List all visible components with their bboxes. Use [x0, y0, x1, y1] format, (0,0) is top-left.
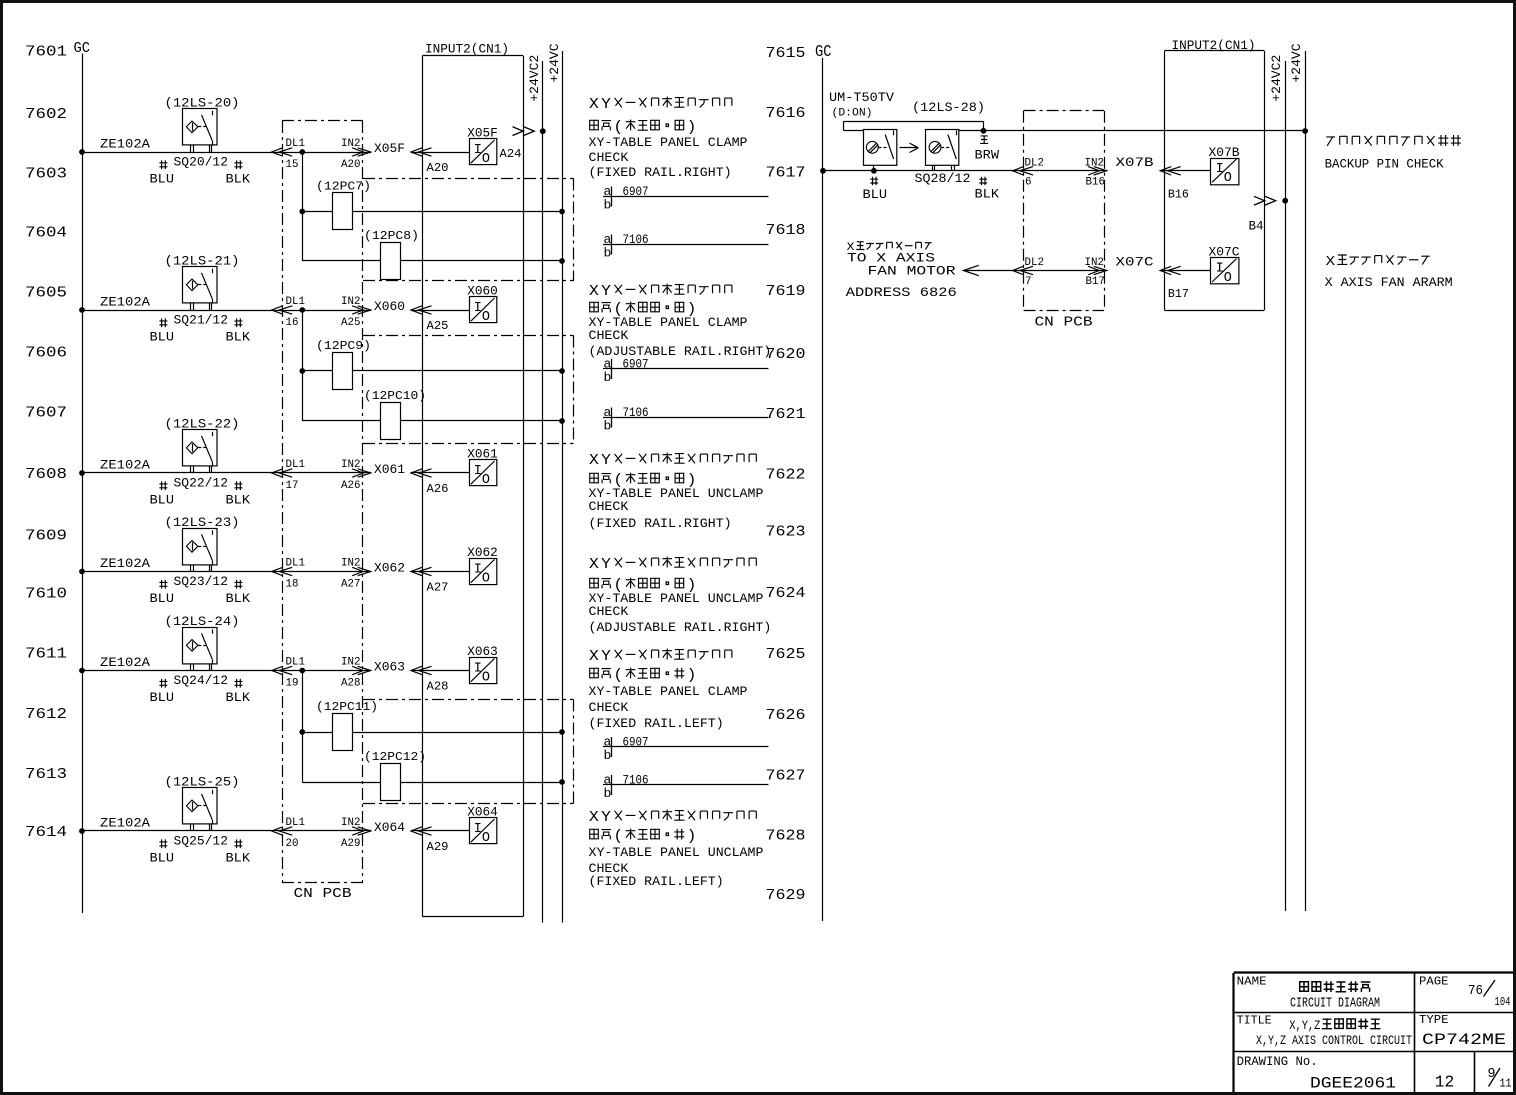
svg-text:7623: 7623: [766, 524, 806, 541]
connector IN2 pin A25: [341, 296, 371, 329]
svg-text:PAGE: PAGE: [1419, 975, 1449, 989]
function description text block: [589, 453, 764, 531]
actuation arrow between switches: [900, 143, 919, 152]
svg-text:O: O: [1224, 271, 1232, 286]
title block DRAWING cell: [1237, 1055, 1396, 1093]
wire BRW node to +24VC bus: [981, 128, 1308, 134]
svg-text:7616: 7616: [766, 105, 806, 122]
wire X060 to I/O with direction arrow: [411, 306, 470, 314]
limit switch SQ20/12 (12LS-20): [165, 96, 240, 153]
svg-text:CP742ME: CP742ME: [1422, 1031, 1506, 1049]
svg-text:(FIXED RAIL.RIGHT): (FIXED RAIL.RIGHT): [589, 165, 732, 180]
svg-text:A27: A27: [427, 581, 449, 595]
line numbers 7615-7629: [766, 45, 806, 904]
svg-text:+24VC2: +24VC2: [1269, 55, 1284, 102]
limit switch SQ21/12 (12LS-21): [165, 254, 240, 311]
svg-text:X AXIS FAN ARARM: X AXIS FAN ARARM: [1325, 275, 1453, 290]
svg-text:X: X: [589, 810, 599, 826]
connector DL1 pin 15: [272, 138, 305, 171]
svg-text:SQ28/12: SQ28/12: [915, 171, 971, 186]
svg-text:): ): [687, 120, 697, 136]
+24VC bus (right): [1289, 43, 1306, 911]
svg-text:BLK: BLK: [226, 493, 251, 508]
wire color labels BLU/BLK: [150, 155, 251, 187]
I/O module X064 pin A29: [467, 806, 498, 847]
svg-text:O: O: [482, 473, 490, 488]
wire ZE102A row (y=310): [79, 295, 371, 313]
wire color labels BLU/BLK: [150, 313, 251, 345]
svg-text:XY-TABLE PANEL UNCLAMP: XY-TABLE PANEL UNCLAMP: [589, 845, 764, 860]
svg-text:I: I: [474, 661, 482, 676]
svg-text:ZE102A: ZE102A: [100, 137, 150, 152]
svg-text:I: I: [474, 301, 482, 316]
connector DL1 pin 18: [272, 558, 305, 591]
terminal a/b address 7106: [603, 232, 768, 261]
svg-text:X: X: [589, 557, 599, 573]
svg-text:A28: A28: [427, 680, 449, 694]
connector DL1 pin 17: [272, 459, 305, 492]
connector DL1 pin 20: [272, 817, 305, 850]
svg-text:20: 20: [286, 838, 299, 850]
wire colors BLU for UM-T50TV: [863, 177, 888, 202]
function description text block: [589, 284, 772, 359]
connector DL2 pin 6: [1013, 157, 1044, 188]
svg-text:TYPE: TYPE: [1419, 1013, 1449, 1027]
svg-text:SQ22/12: SQ22/12: [174, 476, 229, 491]
photocoupler (12PC12): [302, 750, 565, 801]
svg-text:7106: 7106: [623, 233, 649, 247]
svg-text:BLU: BLU: [150, 172, 175, 187]
wire color labels BLU/BLK: [150, 834, 251, 866]
fan motor destination text: [846, 242, 957, 300]
photocoupler (12PC7): [302, 179, 565, 229]
svg-text:A20: A20: [427, 161, 449, 175]
svg-text:CN PCB: CN PCB: [294, 887, 352, 902]
svg-text:BLU: BLU: [863, 187, 888, 202]
wire ZE102A row (y=473): [79, 458, 371, 476]
I/O module X07B pin B16: [1209, 146, 1241, 186]
svg-text:BRW: BRW: [975, 147, 1000, 162]
svg-text:Y: Y: [601, 557, 611, 573]
svg-text:7625: 7625: [766, 646, 806, 663]
svg-text:IN2: IN2: [341, 296, 360, 308]
svg-text:DGEE2061: DGEE2061: [1310, 1075, 1396, 1093]
svg-text:I: I: [474, 562, 482, 577]
limit switch SQ24/12 (12LS-24): [165, 614, 240, 671]
wire X05F to I/O with direction arrow: [411, 148, 470, 156]
svg-text:ZE102A: ZE102A: [100, 458, 150, 473]
svg-text:7626: 7626: [766, 707, 806, 724]
svg-text:19: 19: [286, 678, 299, 690]
svg-text:7629: 7629: [766, 887, 806, 904]
svg-text:b: b: [604, 198, 612, 213]
svg-text:16: 16: [286, 317, 299, 329]
svg-text:ZE102A: ZE102A: [100, 556, 150, 571]
wire ZE102A row (y=152): [79, 137, 371, 155]
svg-text:7615: 7615: [766, 45, 806, 62]
svg-text:): ): [687, 668, 697, 684]
svg-text:7106: 7106: [623, 406, 649, 420]
photocoupler (12PC10): [302, 389, 565, 440]
svg-text:(12PC9): (12PC9): [316, 339, 371, 353]
svg-text:(12LS-28): (12LS-28): [912, 100, 985, 115]
limit switch SQ23/12 (12LS-23): [165, 515, 240, 572]
svg-text:7624: 7624: [766, 585, 806, 602]
svg-text:O: O: [1224, 171, 1232, 186]
tap wire from DL1 node row1 down to 12PC7/12PC8: [299, 152, 305, 261]
+24VC2 bus (right): [1269, 55, 1286, 911]
svg-text:b: b: [604, 786, 612, 801]
svg-text:BLK: BLK: [226, 851, 251, 866]
svg-text:7604: 7604: [25, 225, 67, 242]
svg-text:76: 76: [1468, 984, 1483, 999]
svg-text:): ): [687, 829, 697, 845]
connector DL1 pin 19: [272, 657, 305, 690]
svg-text:7614: 7614: [25, 824, 67, 841]
svg-text:DRAWING No.: DRAWING No.: [1237, 1055, 1318, 1069]
svg-text:17: 17: [286, 480, 299, 492]
svg-text:BLU: BLU: [150, 851, 175, 866]
svg-text:X07B: X07B: [1116, 156, 1155, 170]
I/O module X061 pin A26: [467, 448, 498, 489]
svg-text:Y: Y: [601, 649, 611, 665]
svg-text:7601: 7601: [25, 44, 67, 61]
svg-text:A26: A26: [341, 480, 360, 492]
svg-text:9: 9: [1488, 1067, 1496, 1082]
svg-text:SQ25/12: SQ25/12: [174, 834, 229, 849]
svg-text:X,Y,Z AXIS CONTROL CIRCUIT: X,Y,Z AXIS CONTROL CIRCUIT: [1256, 1033, 1412, 1048]
svg-text:ZE102A: ZE102A: [100, 655, 150, 670]
terminal a/b address 6907: [603, 184, 768, 213]
connector IN2 pin B16: [1085, 157, 1107, 188]
svg-text:I: I: [474, 143, 482, 158]
svg-text:IN2: IN2: [1085, 257, 1104, 269]
cable screen boundary A25 block (dash-dot): [363, 336, 574, 444]
svg-text:SQ24/12: SQ24/12: [174, 673, 229, 688]
svg-text:(: (: [613, 829, 623, 845]
svg-text:GC: GC: [74, 40, 91, 57]
svg-text:(FIXED RAIL.LEFT): (FIXED RAIL.LEFT): [589, 874, 724, 889]
I/O module X062 pin A27: [467, 546, 498, 587]
function description text block: [589, 810, 764, 889]
wire X061 to I/O with direction arrow: [411, 469, 470, 477]
photocoupler (12PC8): [302, 229, 565, 280]
svg-text:7613: 7613: [25, 766, 67, 783]
wire X07B to I/O with direction arrow: [1160, 167, 1210, 175]
+24VC2 feed arrow at X05F: [513, 127, 546, 136]
svg-text:A27: A27: [341, 579, 360, 591]
svg-text:b: b: [604, 748, 612, 763]
svg-text:O: O: [482, 572, 490, 587]
svg-text:IN2: IN2: [341, 657, 360, 669]
svg-text:BLK: BLK: [226, 330, 251, 345]
svg-text:BLU: BLU: [150, 330, 175, 345]
wire X063 to I/O with direction arrow: [411, 666, 470, 674]
svg-text:18: 18: [286, 579, 299, 591]
svg-text:I: I: [474, 464, 482, 479]
svg-text:7611: 7611: [25, 646, 67, 663]
svg-text:11: 11: [1500, 1078, 1512, 1091]
svg-text:X: X: [589, 284, 599, 300]
svg-text:X062: X062: [374, 562, 405, 576]
svg-text:(FIXED RAIL.LEFT): (FIXED RAIL.LEFT): [589, 716, 724, 731]
svg-text:A29: A29: [341, 838, 360, 850]
function description text block: [589, 97, 748, 180]
line numbers 7601-7614: [25, 44, 67, 842]
svg-text:+24VC: +24VC: [547, 43, 562, 82]
svg-text:7: 7: [1025, 276, 1031, 288]
svg-text:DL2: DL2: [1025, 257, 1044, 269]
svg-text:B16: B16: [1168, 188, 1189, 202]
svg-text:IN2: IN2: [1085, 157, 1104, 169]
svg-text:O: O: [482, 831, 490, 846]
INPUT2(CN1) connector box (left): [422, 56, 523, 917]
wire colors SQ28/12 BLK BRW: [915, 136, 1000, 202]
svg-text:(12LS-23): (12LS-23): [165, 515, 240, 530]
limit switch SQ25/12 (12LS-25): [165, 775, 240, 832]
tap wire from DL1 node row5 down to 12PC11/12PC12: [299, 671, 305, 783]
terminal a/b address 7106: [603, 405, 768, 434]
title block TYPE cell: [1419, 1013, 1506, 1049]
svg-text:I: I: [1216, 262, 1224, 277]
svg-text:Y: Y: [601, 453, 611, 469]
svg-text:7608: 7608: [25, 466, 67, 483]
svg-text:X07B: X07B: [1209, 146, 1241, 160]
svg-text:BACKUP PIN CHECK: BACKUP PIN CHECK: [1325, 156, 1444, 171]
GC bus (right): [822, 58, 824, 921]
svg-text:BLU: BLU: [150, 591, 175, 606]
svg-text:DL1: DL1: [286, 657, 305, 669]
title block PAGE cell: [1419, 975, 1511, 1010]
I/O module X060 pin A25: [467, 285, 498, 326]
limit switch SQ28/12 (12LS-28): [912, 100, 985, 171]
svg-text:INPUT2(CN1): INPUT2(CN1): [425, 42, 509, 57]
connector IN2 pin A27: [341, 558, 371, 591]
svg-text:SQ23/12: SQ23/12: [174, 574, 229, 589]
I/O module X063 pin A28: [467, 645, 498, 686]
INPUT2(CN1) connector box (right): [1165, 51, 1265, 311]
svg-text:7612: 7612: [25, 706, 67, 723]
svg-text:DL1: DL1: [286, 459, 305, 471]
svg-text:IN2: IN2: [341, 459, 360, 471]
+24VC bus (left): [547, 43, 563, 922]
connector DL1 pin 16: [272, 296, 305, 329]
svg-text:IN2: IN2: [341, 138, 360, 150]
cable screen boundary A28 block (dash-dot): [363, 700, 574, 804]
wire to fan motor with arrow: [963, 265, 1106, 275]
svg-text:GC: GC: [815, 42, 832, 61]
svg-text:BLK: BLK: [226, 591, 251, 606]
svg-text:BLU: BLU: [150, 493, 175, 508]
CN PCB connector boundary (left, dash-dot): [282, 121, 363, 883]
cable screen boundary A20 block (dash-dot): [363, 179, 574, 282]
bypass wire over UM-T50TV to BRW node: [844, 121, 984, 131]
svg-text:7618: 7618: [766, 222, 806, 239]
title block TITLE cell: [1237, 1014, 1413, 1048]
svg-text:A28: A28: [341, 678, 360, 690]
svg-text:6907: 6907: [623, 185, 649, 199]
svg-text:104: 104: [1495, 996, 1511, 1009]
svg-text:BLU: BLU: [150, 690, 175, 705]
svg-text:A25: A25: [341, 317, 360, 329]
wire ZE102A row (y=670.5): [79, 655, 371, 673]
svg-text:b: b: [604, 419, 612, 434]
svg-text:(12PC12): (12PC12): [364, 750, 426, 764]
svg-text:CHECK: CHECK: [589, 150, 629, 165]
terminal a/b address 7106: [603, 773, 768, 802]
title block frame: [1234, 973, 1515, 1094]
function description text block: [589, 557, 772, 635]
svg-text:NAME: NAME: [1237, 975, 1267, 989]
junction node to photocoupler tap: [299, 307, 305, 313]
svg-text:CHECK: CHECK: [589, 499, 629, 514]
svg-text:7621: 7621: [766, 406, 806, 423]
svg-text:DL1: DL1: [286, 558, 305, 570]
wire X064 to I/O with direction arrow: [411, 827, 470, 835]
wire X07C to I/O with direction arrow: [1160, 266, 1210, 274]
CN PCB connector boundary (right, dash-dot): [1024, 111, 1105, 311]
svg-text:B4: B4: [1249, 220, 1264, 234]
svg-text:(12PC7): (12PC7): [316, 179, 371, 193]
svg-text:7605: 7605: [25, 285, 67, 302]
svg-text:7602: 7602: [25, 106, 67, 123]
+24VC2 bus (left): [527, 55, 543, 923]
right column annotation: backup pin check: [1325, 135, 1461, 171]
svg-text:I: I: [474, 822, 482, 837]
svg-text:SQ20/12: SQ20/12: [174, 155, 229, 170]
svg-text:Y: Y: [601, 284, 611, 300]
svg-text:7607: 7607: [25, 405, 67, 422]
terminal a/b address 6907: [603, 357, 768, 386]
svg-text:6: 6: [1025, 177, 1031, 189]
right column annotation: x axis fan alarm: [1325, 254, 1453, 290]
wire color labels BLU/BLK: [150, 673, 251, 705]
svg-text:ZE102A: ZE102A: [100, 816, 150, 831]
svg-text:CIRCUIT DIAGRAM: CIRCUIT DIAGRAM: [1290, 997, 1380, 1012]
svg-text:12: 12: [1435, 1074, 1455, 1093]
junction node to photocoupler tap: [299, 149, 305, 155]
svg-text:A26: A26: [427, 482, 449, 496]
svg-text:IN2: IN2: [341, 558, 360, 570]
svg-text:7619: 7619: [766, 283, 806, 300]
svg-text:(FIXED RAIL.RIGHT): (FIXED RAIL.RIGHT): [589, 516, 732, 531]
svg-text:X: X: [589, 649, 599, 665]
svg-text:(ADJUSTABLE RAIL.RIGHT): (ADJUSTABLE RAIL.RIGHT): [589, 620, 772, 635]
svg-text:DL1: DL1: [286, 817, 305, 829]
svg-text:TITLE: TITLE: [1237, 1014, 1272, 1028]
svg-text:A24: A24: [500, 147, 522, 161]
svg-text:7610: 7610: [25, 586, 67, 603]
svg-text:7603: 7603: [25, 166, 67, 183]
svg-text:(12PC11): (12PC11): [316, 700, 378, 714]
svg-text:BLK: BLK: [226, 690, 251, 705]
svg-text:DL2: DL2: [1025, 157, 1044, 169]
svg-text:X060: X060: [374, 300, 405, 314]
svg-text:7106: 7106: [623, 774, 649, 788]
svg-text:7627: 7627: [766, 768, 806, 785]
limit switch SQ22/12 (12LS-22): [165, 417, 240, 474]
svg-text:b: b: [604, 246, 612, 261]
svg-text:X: X: [589, 453, 599, 469]
svg-text:O: O: [482, 152, 490, 167]
connector IN2 pin A20: [341, 138, 371, 171]
svg-text:(12LS-24): (12LS-24): [165, 614, 240, 629]
GC bus (left): [82, 54, 84, 914]
svg-text:CHECK: CHECK: [589, 700, 629, 715]
svg-text:ADDRESS 6826: ADDRESS 6826: [846, 285, 957, 300]
wire color labels BLU/BLK: [150, 476, 251, 508]
connector IN2 pin A28: [341, 657, 371, 690]
svg-text:+24VC2: +24VC2: [527, 55, 542, 102]
svg-text:BLK: BLK: [975, 187, 1000, 202]
svg-text:B17: B17: [1168, 287, 1189, 301]
svg-text:(: (: [613, 668, 623, 684]
svg-text:A25: A25: [427, 319, 449, 333]
svg-text:CHECK: CHECK: [589, 604, 629, 619]
svg-text:X: X: [589, 97, 599, 113]
terminal a/b address 6907: [603, 735, 768, 764]
svg-text:B16: B16: [1086, 177, 1105, 189]
svg-text:7620: 7620: [766, 346, 806, 363]
junction node to photocoupler tap: [299, 668, 305, 674]
svg-text:X061: X061: [374, 463, 405, 477]
svg-text:6907: 6907: [623, 358, 649, 372]
svg-text:O: O: [482, 671, 490, 686]
svg-text:15: 15: [286, 159, 299, 171]
photocoupler (12PC9): [302, 339, 565, 390]
I/O module X07C pin B17: [1209, 246, 1240, 286]
svg-text:BLK: BLK: [226, 172, 251, 187]
title block NAME cell: [1237, 975, 1380, 1012]
svg-text:X064: X064: [374, 821, 405, 835]
svg-text:7617: 7617: [766, 164, 806, 181]
function description text block: [589, 649, 748, 731]
wire ZE102A row (y=831): [79, 816, 371, 834]
svg-text:A20: A20: [341, 159, 360, 171]
svg-text:Y: Y: [601, 810, 611, 826]
svg-text:X07C: X07C: [1116, 256, 1154, 270]
svg-text:X,Y,Z: X,Y,Z: [1289, 1019, 1320, 1033]
svg-text:Y: Y: [601, 97, 611, 113]
svg-text:X: X: [1326, 254, 1336, 270]
wire color labels BLU/BLK: [150, 574, 251, 606]
svg-text:XY-TABLE PANEL CLAMP: XY-TABLE PANEL CLAMP: [589, 135, 748, 150]
connector IN2 pin B17: [1085, 257, 1107, 288]
connector IN2 pin A29: [341, 817, 371, 850]
svg-text:ZE102A: ZE102A: [100, 295, 150, 310]
svg-text:XY-TABLE PANEL CLAMP: XY-TABLE PANEL CLAMP: [589, 684, 748, 699]
svg-text:A29: A29: [427, 840, 449, 854]
photocoupler (12PC11): [302, 700, 565, 751]
svg-text:SQ21/12: SQ21/12: [174, 313, 229, 328]
svg-text:CN PCB: CN PCB: [1035, 316, 1093, 331]
svg-text:7606: 7606: [25, 345, 67, 362]
svg-text:7628: 7628: [766, 827, 806, 844]
svg-text:(D:ON): (D:ON): [832, 108, 873, 120]
svg-text:(12PC10): (12PC10): [364, 389, 426, 403]
svg-text:O: O: [482, 310, 490, 325]
svg-text:X05F: X05F: [374, 142, 405, 156]
svg-text:b: b: [604, 370, 612, 385]
wire X062 to I/O with direction arrow: [411, 567, 470, 575]
svg-text:7622: 7622: [766, 466, 806, 483]
+24VC2 feed arrow B4: [1249, 196, 1289, 233]
svg-text:(12PC8): (12PC8): [364, 229, 419, 243]
svg-text:B17: B17: [1086, 276, 1105, 288]
svg-text:FAN MOTOR: FAN MOTOR: [868, 264, 956, 279]
svg-text:(ADJUSTABLE RAIL.RIGHT): (ADJUSTABLE RAIL.RIGHT): [589, 344, 772, 359]
wire ZE102A row (y=571.5): [79, 556, 371, 574]
